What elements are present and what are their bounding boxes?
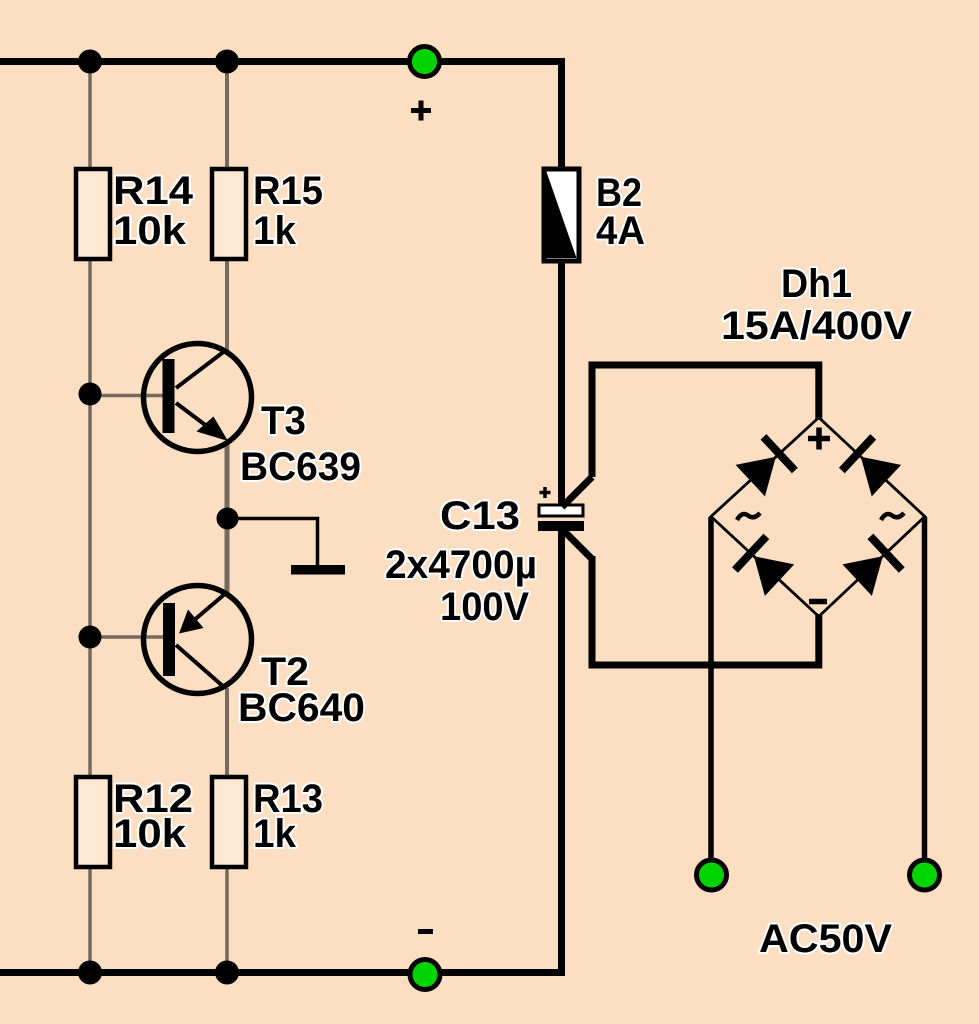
wire AC right	[922, 517, 928, 861]
svg-text:BC639: BC639	[240, 445, 361, 489]
wire bridge plus rail	[592, 365, 819, 477]
resistor R12	[76, 777, 193, 867]
node junction emitter/ground	[217, 508, 239, 530]
wire ground connection	[228, 519, 318, 566]
svg-text:10k: 10k	[113, 209, 187, 253]
svg-text:Dh1: Dh1	[781, 262, 852, 306]
node green AC right	[910, 860, 940, 890]
bridge plus symbol	[808, 428, 830, 450]
wire positive top rail to fuse	[0, 62, 562, 170]
wire AC left	[708, 517, 714, 861]
svg-text:10k: 10k	[113, 812, 187, 856]
diode bottom-left	[732, 534, 795, 597]
diode top-right	[839, 434, 902, 497]
resistor R13	[212, 777, 323, 867]
wire T3 emitter to T2 collector	[225, 441, 230, 593]
wire T2 emitter to R13	[225, 688, 229, 777]
fuse B2	[544, 169, 645, 261]
node junction bottom rail left	[78, 961, 102, 985]
svg-text:AC50V: AC50V	[759, 917, 892, 961]
node junction top rail left	[78, 50, 102, 74]
node junction T3 base	[79, 383, 102, 406]
bridge minus symbol	[809, 599, 827, 605]
wire plus diagonal to capacitor	[562, 477, 592, 507]
svg-text:100V: 100V	[440, 585, 529, 629]
diode top-left	[735, 434, 798, 497]
wire R15 to T3 collector	[225, 259, 229, 352]
wire R13 to bottom rail	[225, 867, 229, 973]
bridge AC symbol right	[881, 513, 904, 520]
bridge AC symbol left	[737, 513, 760, 520]
svg-text:1k: 1k	[253, 209, 297, 253]
label minus bottom	[418, 929, 433, 934]
svg-text:2x4700µ: 2x4700µ	[385, 543, 537, 587]
node junction T2 base	[79, 626, 102, 649]
node junction bottom rail right	[215, 961, 239, 985]
wire minus diagonal from capacitor	[563, 530, 592, 559]
node junction top rail right	[215, 50, 239, 74]
svg-text:C13: C13	[440, 494, 520, 538]
svg-text:4A: 4A	[596, 209, 645, 253]
svg-text:BC640: BC640	[238, 686, 365, 730]
svg-text:1k: 1k	[253, 812, 297, 856]
wire bridge minus rail	[592, 556, 819, 665]
svg-text:R14: R14	[113, 169, 194, 213]
wire capacitor to bottom rail	[0, 529, 562, 973]
wire T2 base line	[90, 635, 166, 639]
resistor R14	[76, 169, 194, 259]
wire T3 base line	[90, 394, 166, 398]
node green top plus	[410, 47, 440, 77]
ground	[291, 565, 345, 575]
svg-text:15A/400V: 15A/400V	[721, 304, 912, 348]
diode bottom-right	[841, 534, 904, 597]
wire fuse to capacitor	[558, 261, 565, 506]
svg-text:R15: R15	[253, 169, 323, 213]
resistor R15	[212, 169, 323, 259]
transistor T3	[144, 344, 362, 490]
wire left branch x=90 bottom	[88, 867, 92, 973]
wire right branch x=227 top	[225, 62, 229, 170]
node green AC left	[697, 860, 727, 890]
diode bridge Dh1 outline	[711, 418, 925, 617]
node green bottom minus	[410, 960, 440, 990]
label plus top	[411, 101, 431, 121]
wire left branch x=90 top	[88, 62, 92, 170]
wire left branch x=90 middle	[88, 259, 92, 777]
capacitor C13	[385, 487, 584, 629]
transistor T2	[144, 586, 366, 731]
svg-text:T3: T3	[261, 399, 306, 443]
